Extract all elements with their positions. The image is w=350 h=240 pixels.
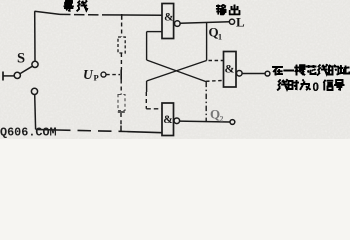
wire lower throw down to bottom wire xyxy=(34,95,37,130)
wire U1 output to L terminal xyxy=(180,22,229,24)
resistor R2 (faint dashed outline) xyxy=(118,95,125,111)
switch lower throw contact circle xyxy=(31,88,37,94)
wire U1 input2 feedback stub xyxy=(147,31,162,33)
wire dashed into U2 input1 xyxy=(146,108,162,110)
wire U3 output to terminal xyxy=(242,73,265,75)
terminal circle right output xyxy=(265,71,270,76)
node Up junction bar xyxy=(120,70,122,80)
wire top conductor (dao-xian) from corner to gate U1 xyxy=(35,11,61,14)
wire dashed upper node to U3 input1 xyxy=(209,60,224,62)
wire dashed lower node to U3 input2 xyxy=(206,79,224,82)
node junction tick on top wire xyxy=(121,14,123,20)
resistor R1 (dashed outline) xyxy=(118,37,125,53)
terminal circle Up xyxy=(101,72,106,77)
wire dashed Up node to resistor R2 xyxy=(120,80,122,95)
wire dash-dot lower node down to Q2 wire xyxy=(205,82,207,122)
label caption line2 (xian shi wei 0 xin hao) xyxy=(277,79,344,94)
label output (shu-chu) xyxy=(216,5,239,15)
wire switch stub xyxy=(3,75,14,77)
output bubble U2 xyxy=(174,118,180,124)
wire cross diagonal Q1-node to gate U2 input (upper-right to lower-left) xyxy=(147,61,207,82)
output bubble U1 xyxy=(175,21,181,27)
node R2 bottom tick xyxy=(118,111,125,113)
wire node Q1 vertical down to upper cross node xyxy=(206,22,208,60)
terminal circle Q2 xyxy=(230,120,235,125)
svg-text:1: 1 xyxy=(218,33,222,42)
wire U2 output to Q2 terminal xyxy=(180,120,230,123)
label caption line1 (zai yi gen xin xian de di) xyxy=(272,64,349,75)
terminal circle L xyxy=(229,19,234,24)
wire dashed R1 to Up node xyxy=(120,53,122,70)
svg-text:P: P xyxy=(94,73,99,83)
wire dashed vertical to resistor R1 xyxy=(121,23,123,38)
switch pole contact circle xyxy=(14,72,20,78)
switch S left terminal tick xyxy=(2,72,4,81)
wire dashed Up terminal to node xyxy=(106,74,120,76)
wire left vertical from corner down to switch upper throw xyxy=(34,11,36,61)
svg-text:Q606.COM: Q606.COM xyxy=(0,126,57,139)
svg-text:L: L xyxy=(236,15,245,30)
svg-text:0: 0 xyxy=(313,82,319,94)
svg-text:S: S xyxy=(17,51,25,67)
wire bottom (dashed) from switch to gate U2 xyxy=(36,128,57,131)
wire dashed R2 to bottom wire xyxy=(120,113,122,125)
op-amp U3 nand gate box xyxy=(224,52,237,88)
svg-text:&: & xyxy=(163,114,173,126)
svg-text:U: U xyxy=(83,67,94,82)
switch upper throw contact circle xyxy=(32,61,38,67)
op-amp U1 nand gate box xyxy=(162,4,174,39)
switch blade xyxy=(20,66,32,73)
svg-text:2: 2 xyxy=(220,115,224,124)
wire cross diagonal U1-input feedback (upper-left to lower-right) xyxy=(146,32,148,60)
label dao-xian (conductor) xyxy=(64,0,88,11)
wire left vertical down to U2 input1 (part dashed) xyxy=(146,81,148,92)
svg-text:&: & xyxy=(164,12,173,24)
svg-text:&: & xyxy=(225,61,235,75)
op-amp U2 nand gate box xyxy=(162,103,174,136)
output bubble U3 xyxy=(237,71,243,77)
